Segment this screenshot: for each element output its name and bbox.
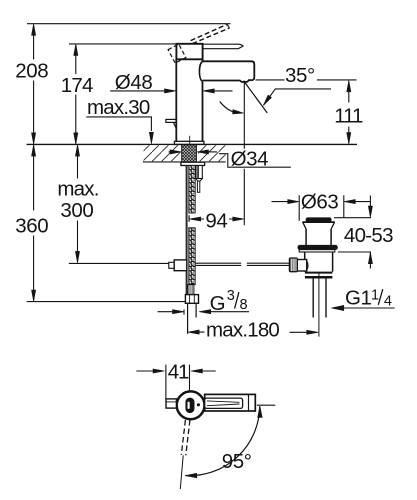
top view body circle <box>177 391 205 419</box>
extension line handle top (174) <box>69 43 176 45</box>
svg-text:Ø34: Ø34 <box>231 147 269 170</box>
deck bottom line <box>143 161 226 163</box>
top view dimension 41 <box>136 370 157 372</box>
extension line top (lever max height) <box>27 23 231 25</box>
stream vertical extension line <box>243 82 245 225</box>
slash G1 1/4 <box>378 289 383 305</box>
swivel arc arrow <box>220 102 236 113</box>
svg-text:1: 1 <box>371 288 379 304</box>
extension line bottom (360) <box>27 301 186 303</box>
extension line pop-up rod (max.300) <box>69 262 175 264</box>
swivel arc 95deg <box>185 406 259 475</box>
top view spout <box>205 394 256 411</box>
supply hose left edge <box>186 166 188 295</box>
drain plug cap <box>306 218 331 222</box>
deck hatching left <box>144 145 181 161</box>
faucet cartridge box <box>176 44 202 60</box>
svg-text:max.180: max.180 <box>206 319 279 342</box>
leader Ø34 <box>219 154 291 168</box>
slash G3/8 <box>235 292 239 308</box>
hose nut G3/8 <box>185 295 198 304</box>
leader G1 1/4 <box>340 307 395 309</box>
spout <box>203 61 255 82</box>
svg-text:300: 300 <box>60 199 93 222</box>
pop-up actuating rod <box>195 263 289 265</box>
dimension 360 line <box>33 146 35 301</box>
mounting shank threaded <box>182 145 197 162</box>
leader Ø48 <box>110 90 168 92</box>
dimension max.180 <box>195 331 307 333</box>
top view rear knob <box>166 399 176 408</box>
dimension 94 <box>197 218 237 220</box>
drain tailpipe G1 1/4 <box>313 279 326 318</box>
svg-text:4: 4 <box>384 294 392 310</box>
dimension 111 line <box>348 82 350 143</box>
supply tube <box>188 303 197 334</box>
body centerline <box>189 136 191 144</box>
svg-text:max.30: max.30 <box>87 96 150 119</box>
svg-text:G1: G1 <box>345 287 372 310</box>
water stream diagonal 35deg <box>244 82 267 113</box>
svg-text:Ø63: Ø63 <box>301 191 339 214</box>
dimension max.300 line <box>77 146 79 262</box>
dimension Ø63 <box>272 201 293 203</box>
svg-text:208: 208 <box>15 59 48 82</box>
top view lever <box>205 398 243 408</box>
svg-text:Ø48: Ø48 <box>115 71 153 94</box>
top view extension lines 41 <box>166 365 190 399</box>
svg-text:174: 174 <box>61 74 93 97</box>
dimension 174 line <box>75 45 77 143</box>
deck hatching right <box>198 145 225 161</box>
supply hose braid <box>189 166 195 214</box>
hose compression fitting <box>188 285 194 295</box>
top view cartridge capsule <box>186 398 195 413</box>
pop-up knurled knob <box>289 258 297 272</box>
svg-text:35°: 35° <box>285 64 315 87</box>
leader G3/8 <box>207 311 249 313</box>
leader max.30 <box>86 117 151 131</box>
reference line spout outlet level (35deg/111) <box>256 79 357 81</box>
svg-text:95°: 95° <box>222 450 252 473</box>
pop-up actuator housing <box>297 260 306 272</box>
drain body <box>305 252 333 272</box>
drain centerline extension <box>318 272 320 337</box>
svg-text:8: 8 <box>240 297 248 313</box>
extension lines 40-53 <box>334 218 371 252</box>
arrow Ø48 right <box>211 90 233 92</box>
drain locknut <box>298 245 338 249</box>
lever handle raised dashed <box>191 24 230 43</box>
arrow G3/8 left <box>158 311 177 313</box>
svg-text:40-53: 40-53 <box>344 224 393 247</box>
svg-text:G: G <box>210 292 226 315</box>
svg-text:max.: max. <box>57 177 98 200</box>
lever axis extension <box>180 455 183 489</box>
svg-text:111: 111 <box>334 104 363 127</box>
svg-text:41: 41 <box>168 360 189 383</box>
hose axis tick <box>188 215 190 222</box>
washer under deck <box>181 162 205 165</box>
pop-up rod lever on body <box>166 119 176 122</box>
drain joint rings <box>305 272 333 274</box>
svg-text:3: 3 <box>227 288 235 304</box>
tick G3/8 <box>183 309 185 314</box>
svg-text:360: 360 <box>15 215 48 238</box>
faucet body sides <box>176 59 202 141</box>
top view screw dot <box>197 404 200 407</box>
spout axis line top view <box>257 404 275 406</box>
arrows hole Ø34 <box>169 151 175 153</box>
svg-text:94: 94 <box>205 209 227 232</box>
top view lever swung dashed <box>181 420 190 455</box>
dimension 40-53 <box>369 196 371 269</box>
lever handle horizontal <box>203 44 243 49</box>
pop-up rod clamp on hose <box>169 262 174 268</box>
fixing stud and nut <box>196 166 202 179</box>
faucet base plate <box>174 141 204 144</box>
extension lines Ø63 <box>299 195 344 221</box>
drain flange <box>302 221 335 223</box>
dimension 208 line <box>33 25 35 143</box>
deck surface line <box>27 143 357 145</box>
leader 35deg <box>263 89 331 105</box>
handle hub raised dashed outline <box>168 44 186 63</box>
